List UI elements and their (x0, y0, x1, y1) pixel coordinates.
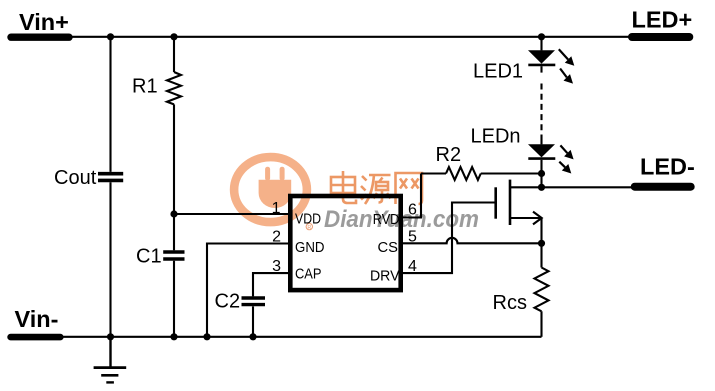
svg-text:R2: R2 (436, 144, 462, 166)
terminal LED+ (628, 7, 693, 42)
node top rail R1 (170, 33, 177, 40)
watermark registered mark (306, 223, 312, 230)
capacitor C2 (215, 273, 290, 337)
watermark logo ring (234, 157, 307, 222)
svg-text:LED+: LED+ (632, 7, 693, 33)
svg-text:C2: C2 (215, 291, 241, 313)
watermark dianyuan.com text (324, 206, 479, 233)
svg-text:1: 1 (272, 200, 281, 217)
svg-text:CAP: CAP (295, 267, 322, 283)
svg-text:RVD: RVD (373, 212, 400, 228)
node drain LED- (538, 184, 545, 191)
svg-text:3: 3 (272, 258, 281, 275)
transistor Q1 MOSFET (496, 180, 542, 244)
svg-text:LED-: LED- (640, 154, 695, 180)
svg-text:LEDn: LEDn (471, 126, 521, 148)
watermark chinese char yuan (361, 175, 391, 204)
node top rail LED1 (538, 33, 545, 40)
svg-text:2: 2 (272, 229, 281, 246)
svg-text:Cout: Cout (54, 167, 97, 189)
resistor R2 (421, 144, 542, 180)
node bottom rail ground (107, 333, 114, 340)
svg-text:Vin-: Vin- (15, 306, 59, 332)
LED LED1 (473, 37, 574, 84)
svg-text:VDD: VDD (295, 212, 321, 228)
terminal LED- (631, 154, 695, 191)
svg-text:6: 6 (408, 201, 417, 218)
watermark chinese char wang (396, 173, 423, 204)
capacitor Cout (54, 37, 123, 337)
terminal Vin+ (7, 9, 72, 41)
watermark plug icon (259, 167, 292, 208)
IC U1 box (290, 196, 400, 290)
node top rail Cout (107, 33, 114, 40)
wire pin4 DRV to gate (403, 203, 495, 274)
wire bottom rail Vin- to Rcs (63, 336, 542, 338)
svg-text:LED1: LED1 (473, 61, 523, 83)
node bottom rail GND wire (203, 333, 210, 340)
svg-text:GND: GND (295, 240, 325, 256)
svg-text:Vin+: Vin+ (19, 9, 69, 35)
watermark chinese char dian (331, 171, 356, 203)
wire drain node to LED- terminal (542, 186, 632, 188)
wire dashed LED string continuation (540, 84, 542, 132)
wire pin6 RVD riser (403, 174, 422, 218)
node CS source Rcs (538, 240, 545, 247)
resistor R1 (132, 37, 181, 214)
wire pin2 GND down to rail (207, 244, 289, 337)
resistor Rcs (493, 243, 549, 336)
svg-text:CS: CS (378, 240, 399, 256)
node R1 C1 pin1 (170, 210, 177, 217)
terminal Vin- (7, 306, 63, 340)
node bottom rail C2 (249, 333, 256, 340)
LED LEDn (471, 126, 574, 188)
svg-text:Rcs: Rcs (493, 292, 527, 314)
svg-text:C1: C1 (136, 246, 162, 268)
node bottom rail C1 (170, 333, 177, 340)
wire top rail Vin+ to LED+ (72, 36, 629, 38)
node LEDn R2 (538, 170, 545, 177)
svg-text:R1: R1 (132, 76, 158, 98)
svg-text:DRV: DRV (370, 269, 400, 285)
wire pin1 to R1/C1 node (174, 213, 289, 215)
ground (94, 337, 127, 383)
capacitor C1 (136, 214, 185, 337)
wire pin5 CS with hop (403, 238, 542, 243)
